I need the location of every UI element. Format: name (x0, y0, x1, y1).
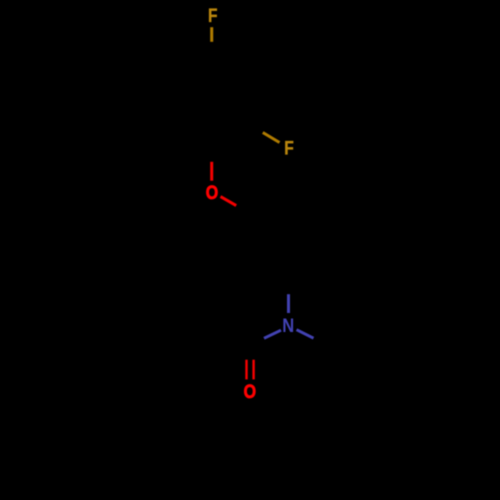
wire bond N1-C9 (blue half-bond down-left of N toward carbonyl carbon) (264, 330, 281, 338)
wire bond C9=O2 right line (red half of carbonyl double bond) (252, 360, 254, 380)
svg-text:O: O (244, 380, 256, 402)
wire bond C5-F1 (goldenrod half-bond below top F) (210, 27, 213, 42)
wire bond C3-F2 (goldenrod half-bond up-left of right F) (263, 133, 280, 143)
wire bond C9=O2 left line (red half of carbonyl double bond) (245, 360, 247, 380)
wire bond N1-C10 (blue half-bond down-right of N) (297, 330, 314, 339)
svg-text:F: F (208, 5, 218, 27)
svg-text:F: F (284, 137, 294, 159)
svg-text:N: N (282, 315, 294, 336)
wire bond C8-N1 (blue half-bond above N) (287, 294, 290, 313)
wire bond C2-O1 (red half-bond above ether O) (210, 162, 213, 181)
svg-text:O: O (206, 182, 218, 204)
wire bond O1-C7 (red half-bond down-right of ether O) (221, 197, 237, 206)
